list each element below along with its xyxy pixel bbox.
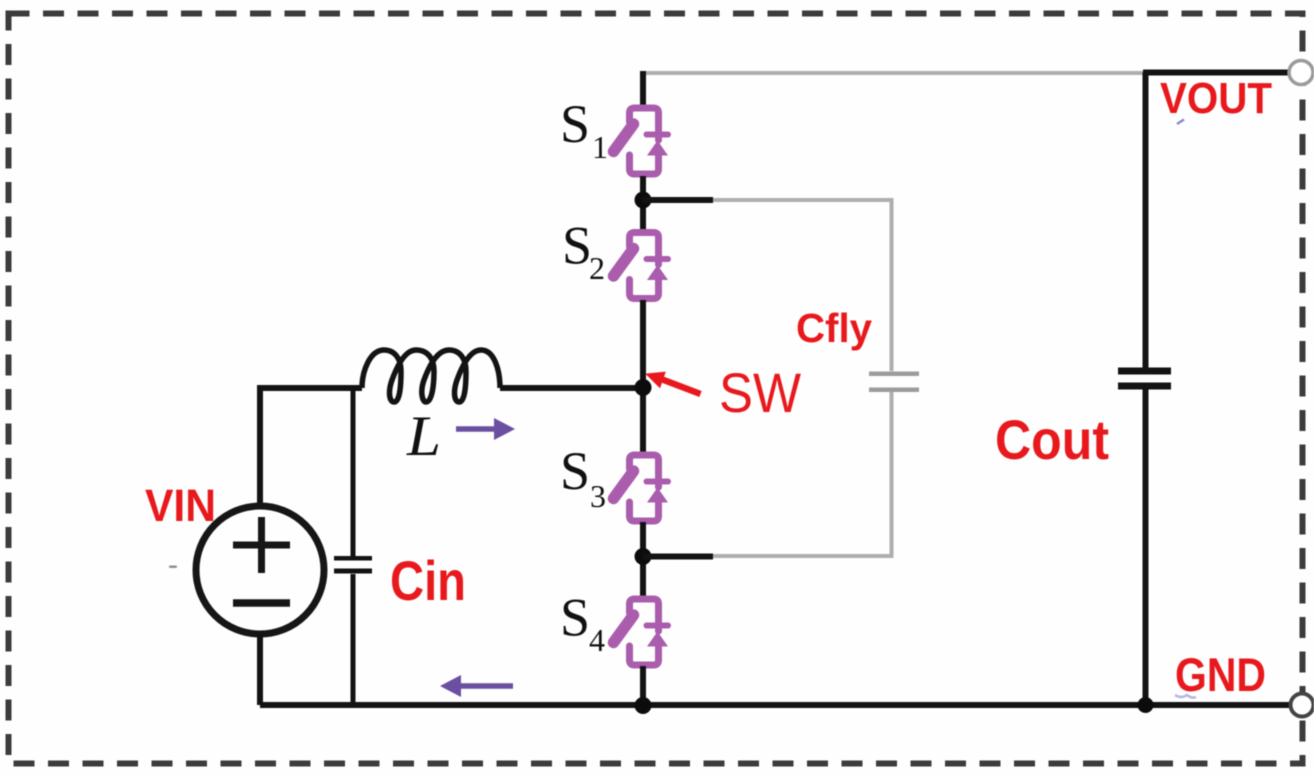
svg-text:VOUT: VOUT xyxy=(1160,74,1272,123)
VIN minus sign xyxy=(233,599,290,607)
svg-text:S: S xyxy=(560,441,590,501)
transistor S1 xyxy=(614,108,669,174)
wire node A to Cfly xyxy=(643,197,713,203)
inductor current arrow xyxy=(456,426,496,432)
voltage source VIN circle xyxy=(196,506,324,634)
capacitor Cin wires xyxy=(351,388,356,556)
transistor S4 xyxy=(614,599,669,665)
svg-text:1: 1 xyxy=(592,129,608,165)
wire node B to Cfly xyxy=(643,554,713,560)
transistor S3 xyxy=(614,455,669,521)
capacitor Cin plates xyxy=(334,556,372,561)
svg-text:S: S xyxy=(560,588,590,648)
wire inductor to SW node xyxy=(500,385,643,391)
node SW junction xyxy=(635,379,652,396)
svg-text:GND: GND xyxy=(1175,648,1266,701)
wire VIN top to inductor xyxy=(260,388,362,506)
transistor S2 xyxy=(614,233,669,299)
VOUT terminal xyxy=(1289,61,1313,85)
capacitor Cout plates xyxy=(1118,368,1171,375)
svg-text:S: S xyxy=(560,94,590,154)
svg-text:Cin: Cin xyxy=(390,549,466,612)
SW pointer arrow (red) xyxy=(661,379,701,394)
svg-text:Cout: Cout xyxy=(995,408,1109,471)
node A junction xyxy=(635,192,652,209)
wire S2 to SW node xyxy=(640,300,646,454)
node B junction xyxy=(635,548,652,565)
Cout top wire xyxy=(1143,73,1149,369)
wire S1 to node A xyxy=(640,176,646,232)
svg-text:3: 3 xyxy=(590,478,606,514)
top right black wire to VOUT terminal xyxy=(1143,70,1291,76)
Cout bottom wire xyxy=(1143,389,1149,705)
svg-text:S: S xyxy=(562,216,592,276)
wire VIN bottom xyxy=(257,634,263,705)
gray Cfly top wire xyxy=(711,200,892,371)
wire S4 to ground rail xyxy=(640,666,646,706)
gray Cfly bottom wire xyxy=(711,392,892,556)
VIN plus sign xyxy=(233,517,290,573)
inductor L xyxy=(362,350,500,402)
gray top wire (VOUT net from S1 drain) xyxy=(643,71,1143,75)
GND terminal xyxy=(1291,694,1314,717)
artifact blue mark under GND xyxy=(1175,695,1196,698)
switch column: top stub xyxy=(640,71,646,106)
svg-text:VIN: VIN xyxy=(145,480,216,531)
artifact blue mark under VOUT xyxy=(1177,120,1184,125)
return current arrow xyxy=(460,683,513,689)
artifact speck left of VIN xyxy=(169,566,177,569)
bottom node junction xyxy=(635,697,652,714)
capacitor Cfly plates xyxy=(869,372,919,377)
svg-text:2: 2 xyxy=(589,250,605,286)
wire S3 to node B xyxy=(640,522,646,598)
svg-text:L: L xyxy=(406,405,441,468)
svg-text:4: 4 xyxy=(589,622,605,658)
bottom ground rail xyxy=(260,702,1292,708)
Cout-rail junction xyxy=(1138,697,1154,713)
svg-text:SW: SW xyxy=(719,361,801,424)
svg-text:Cfly: Cfly xyxy=(796,305,872,351)
